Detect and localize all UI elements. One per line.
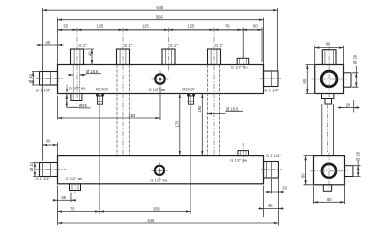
svg-text:50: 50 <box>253 23 258 28</box>
side view top: bottom stub <box>322 94 334 105</box>
svg-text:Ø 42: Ø 42 <box>29 161 34 171</box>
side view top: crosshair <box>312 47 348 98</box>
svg-text:G 1 1/4": G 1 1/4" <box>265 88 280 93</box>
svg-text:G 1/2" вн.: G 1/2" вн. <box>66 176 84 181</box>
side view bottom: circle bore <box>322 164 336 178</box>
lower flat boss centerline <box>242 143 244 164</box>
dim 80 bottom of lower side view <box>314 178 345 204</box>
dim Ø42 upper left <box>28 72 40 86</box>
side view top: square body <box>315 65 344 94</box>
svg-text:55: 55 <box>62 195 67 200</box>
dim Ø28 right of lower side view <box>354 151 361 176</box>
boss no.4 hole dashed lines <box>207 65 219 156</box>
svg-text:75: 75 <box>70 206 75 211</box>
svg-text:G 1": G 1" <box>124 43 133 48</box>
lower right fitting G1 1/4 <box>264 162 279 179</box>
svg-text:646: 646 <box>148 218 156 223</box>
upper right fitting centerline <box>260 78 281 80</box>
svg-text:Ø28: Ø28 <box>79 103 87 108</box>
stud M10x20 no.1 <box>97 94 104 105</box>
bracket tube between side views <box>322 104 334 156</box>
dim 45 lower right <box>258 186 283 218</box>
boss G1 no.2 <box>117 49 130 65</box>
boss G1 no.4 centerline <box>213 28 215 156</box>
dim row 55/125/125/125/78/50 <box>58 23 263 62</box>
svg-text:G 1/2" вн.: G 1/2" вн. <box>231 65 249 70</box>
svg-text:80: 80 <box>301 173 306 178</box>
side view bottom: square body <box>314 156 345 185</box>
upper bottom notch G1/2 <box>71 94 82 101</box>
lower right fitting centerline <box>261 169 282 171</box>
upper left fitting G1 1/4 <box>40 72 58 86</box>
svg-text:55: 55 <box>64 23 69 28</box>
lower face port circle G1/2 <box>155 166 164 175</box>
svg-text:20: 20 <box>346 102 351 107</box>
dim 646 bottom <box>58 218 279 223</box>
svg-text:125: 125 <box>188 23 196 28</box>
leader arrow upper notch label <box>66 85 68 93</box>
dim 40 upper left <box>37 40 64 45</box>
svg-text:Ø 28: Ø 28 <box>356 151 361 161</box>
lower bottom notch G1/2 <box>70 184 81 191</box>
boss G1 no.4 <box>208 49 221 65</box>
side view top: boss on top <box>322 50 336 65</box>
svg-text:125: 125 <box>142 23 150 28</box>
side view top: right stub <box>344 73 352 87</box>
upper left fitting centerline <box>36 77 64 79</box>
svg-text:80: 80 <box>327 197 332 202</box>
dim 40 lower left <box>43 139 58 156</box>
dim 40 boss height <box>85 49 95 65</box>
boss G1 no.1 <box>71 49 84 65</box>
stud no.2 centerline <box>190 94 192 215</box>
dim 80 left of side view <box>302 65 315 94</box>
upper circle crosshair <box>152 71 169 88</box>
svg-text:G 1 1/4": G 1 1/4" <box>36 88 51 93</box>
boss no.2 hole dashed lines <box>117 65 129 156</box>
upper notch hole lines into body <box>73 65 79 94</box>
stud M10x20 no.2 <box>188 94 195 105</box>
svg-text:G 1/2" вн.: G 1/2" вн. <box>230 157 248 162</box>
lower left fitting centerline <box>36 169 66 171</box>
dim 190 vertical <box>197 94 202 156</box>
svg-text:646: 646 <box>157 5 165 10</box>
dim 20 lower right <box>265 179 288 226</box>
svg-text:566: 566 <box>156 15 164 20</box>
svg-text:M10x20: M10x20 <box>96 87 108 91</box>
svg-text:Ø 18,5: Ø 18,5 <box>226 106 239 111</box>
svg-text:M10x20: M10x20 <box>183 87 195 91</box>
boss G1 no.2 centerline <box>122 28 124 156</box>
lower notch centerline <box>74 183 76 194</box>
svg-text:283: 283 <box>129 113 137 118</box>
svg-text:G 1": G 1" <box>170 43 179 48</box>
dim 170 vertical <box>175 94 180 156</box>
svg-text:Ø 28: Ø 28 <box>353 54 358 64</box>
svg-text:250: 250 <box>153 206 161 211</box>
dim Ø28 right of top side view <box>352 54 359 87</box>
svg-text:G 1/2" вн.: G 1/2" вн. <box>69 86 87 91</box>
lower view body outline <box>58 156 264 184</box>
upper flat boss G1/2 <box>237 58 249 64</box>
boss G1 no.1 centerline <box>76 28 78 104</box>
dim 283 <box>58 88 161 121</box>
dim 75 bottom <box>58 186 100 226</box>
svg-text:80: 80 <box>302 78 307 83</box>
dim 80 top of side view <box>315 41 344 66</box>
boss G1 no.3 centerline <box>168 28 170 73</box>
svg-text:Ø 18,5: Ø 18,5 <box>86 69 99 74</box>
svg-text:G 1 1/4": G 1 1/4" <box>266 153 281 158</box>
lower left fitting G1 1/4 <box>40 163 58 177</box>
dim Ø18.5 upper left <box>71 69 102 75</box>
svg-text:40: 40 <box>88 51 93 56</box>
dim 55 bottom small <box>53 193 77 203</box>
boss G1 no.3 <box>162 49 175 65</box>
svg-text:G 1": G 1" <box>79 43 88 48</box>
upper view body outline <box>58 65 264 94</box>
side view bottom: right stub <box>345 166 353 177</box>
svg-text:80: 80 <box>326 41 331 46</box>
upper right fitting G1 1/4 <box>264 71 279 87</box>
svg-text:40: 40 <box>46 40 51 45</box>
svg-text:G 1/2" вн.: G 1/2" вн. <box>149 87 167 92</box>
svg-text:170: 170 <box>175 120 180 128</box>
upper flat boss centerline <box>242 55 244 67</box>
lower circle crosshair <box>152 163 168 179</box>
dim 250 bottom <box>100 206 191 211</box>
svg-text:45: 45 <box>268 203 273 208</box>
lower flat boss G1/2 <box>238 151 249 156</box>
dim 20 stub side view <box>338 100 360 113</box>
dim 80 left of lower side view <box>301 156 315 185</box>
dim Ø18.5 right leader <box>208 106 244 113</box>
svg-text:G 1": G 1" <box>215 43 224 48</box>
dim 566 top <box>58 15 264 65</box>
upper face port circle G1/2 <box>155 74 164 83</box>
svg-text:125: 125 <box>97 23 105 28</box>
side view bottom: bottom stub <box>323 185 331 192</box>
dim 646 top <box>43 5 278 161</box>
dim Ø28 at upper notch <box>67 94 91 108</box>
side view top: circle bore <box>321 71 337 87</box>
svg-text:Ø 42: Ø 42 <box>28 73 33 83</box>
svg-text:78: 78 <box>225 23 230 28</box>
dim Ø42 lower left <box>29 161 40 176</box>
stud no.1 centerline <box>99 94 101 215</box>
svg-text:190: 190 <box>197 105 202 113</box>
svg-text:40: 40 <box>46 139 51 144</box>
side view bottom: crosshair <box>311 153 349 189</box>
svg-text:20: 20 <box>282 185 287 190</box>
svg-text:G 1/2" вн.: G 1/2" вн. <box>150 178 168 183</box>
